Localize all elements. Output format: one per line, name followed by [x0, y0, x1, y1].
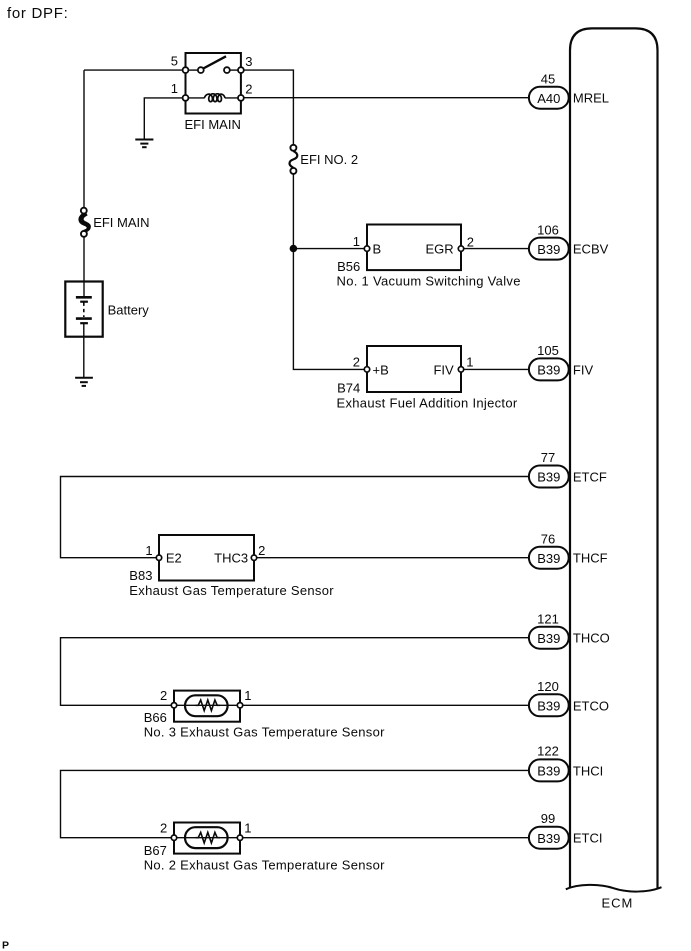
svg-text:No. 1 Vacuum Switching Valve: No. 1 Vacuum Switching Valve: [337, 273, 521, 288]
svg-text:B39: B39: [537, 631, 560, 646]
B66 sensor stadium: [185, 695, 228, 716]
B67 resistor zigzag: [196, 832, 220, 843]
wire: B83 pin2 to THCF oval: [254, 557, 529, 559]
svg-text:B39: B39: [537, 242, 560, 257]
svg-text:2: 2: [258, 543, 265, 558]
B56 pin 1: [364, 246, 369, 251]
battery plate long top: [76, 296, 92, 299]
svg-text:ETCF: ETCF: [573, 470, 607, 485]
B67 sensor stadium: [185, 827, 228, 848]
B67 pin 2: [171, 835, 176, 840]
fuse bottom terminal: [290, 168, 296, 174]
svg-text:1: 1: [244, 821, 251, 836]
ground below relay pin1: [135, 140, 153, 148]
svg-text:B66: B66: [144, 710, 167, 725]
svg-text:THCF: THCF: [573, 551, 608, 566]
fuse top terminal: [290, 145, 296, 151]
svg-text:for DPF:: for DPF:: [7, 5, 68, 22]
terminal oval A40 MREL: [529, 87, 569, 109]
B74 injector box: [367, 346, 461, 392]
relay coil wire pin1 to coil: [186, 97, 205, 99]
battery box: [65, 282, 102, 337]
wire: relay pin1 to ground stem: [144, 98, 185, 139]
svg-text:FIV: FIV: [573, 362, 594, 377]
B66 sensor outer box: [174, 691, 240, 722]
svg-text:B39: B39: [537, 699, 560, 714]
svg-text:76: 76: [541, 531, 555, 546]
terminal oval B39 THCI: [529, 759, 569, 781]
wire: fusible link to battery: [83, 237, 85, 297]
svg-text:3: 3: [245, 54, 252, 69]
wire: ETCF row, riser, to B83 pin1: [61, 477, 529, 558]
svg-text:THCO: THCO: [573, 631, 610, 646]
wire: THCO row, riser, to B66: [61, 638, 529, 706]
svg-text:Battery: Battery: [108, 302, 150, 317]
terminal oval B39 FIV: [529, 358, 569, 380]
relay switch contact A: [198, 67, 204, 73]
fuse EFI NO. 2: [289, 151, 297, 168]
svg-text:THCI: THCI: [573, 763, 603, 778]
fusible link EFI MAIN: [80, 213, 90, 232]
svg-text:B39: B39: [537, 551, 560, 566]
wire: junction to B56 pin1: [293, 248, 367, 250]
junction node: [290, 245, 298, 253]
svg-text:ETCO: ETCO: [573, 698, 609, 713]
svg-text:B83: B83: [129, 568, 152, 583]
terminal oval B39 ETCF: [529, 466, 569, 488]
svg-text:B39: B39: [537, 764, 560, 779]
svg-text:P: P: [2, 940, 9, 951]
wire: left column down to EFI MAIN fusible link: [83, 70, 85, 208]
svg-text:A40: A40: [537, 91, 560, 106]
svg-text:105: 105: [537, 343, 559, 358]
svg-text:1: 1: [353, 234, 360, 249]
svg-text:B39: B39: [537, 363, 560, 378]
svg-text:120: 120: [537, 679, 559, 694]
terminal oval B39 THCO: [529, 627, 569, 649]
wire: EFI NO.2 fuse down through junction to B74 row: [293, 174, 367, 370]
B74 pin 2: [364, 367, 369, 372]
B66 pin 1: [237, 703, 242, 708]
svg-text:ETCI: ETCI: [573, 831, 603, 846]
B56 vacuum switching valve box: [367, 225, 461, 271]
B66 pin 2: [171, 703, 176, 708]
ECM torn wavy bottom edge: [566, 885, 662, 892]
svg-text:No. 2 Exhaust Gas Temperature: No. 2 Exhaust Gas Temperature Sensor: [144, 858, 385, 873]
fusible link bottom terminal: [81, 231, 87, 237]
svg-text:ECM: ECM: [602, 896, 634, 911]
svg-text:E2: E2: [166, 551, 182, 566]
wire: relay pin2 to A40 MREL: [241, 97, 529, 99]
wire: THCI row, riser, to B67: [61, 770, 529, 837]
wire: pin5 row to left column: [84, 69, 186, 71]
relay pin 2: [238, 95, 244, 101]
svg-text:B39: B39: [537, 831, 560, 846]
svg-text:99: 99: [541, 811, 555, 826]
svg-text:2: 2: [245, 82, 252, 97]
B67 pin 1: [237, 835, 242, 840]
svg-text:2: 2: [467, 235, 474, 250]
wire: B74 pin1 to FIV oval: [461, 368, 529, 370]
B83 pin 2: [251, 555, 256, 560]
B83 pin 1: [156, 555, 161, 560]
svg-text:EFI NO. 2: EFI NO. 2: [300, 152, 358, 167]
ground below battery: [75, 378, 93, 386]
relay switch contact B: [224, 67, 230, 73]
svg-text:+B: +B: [373, 363, 389, 378]
ECM connector shell: [570, 28, 658, 888]
B66 resistor zigzag: [196, 700, 220, 711]
terminal oval B39 ETCO: [529, 694, 569, 716]
relay EFI MAIN box: [186, 53, 241, 114]
relay pin 3: [238, 67, 244, 73]
svg-text:121: 121: [537, 611, 559, 626]
svg-text:5: 5: [171, 53, 178, 68]
wire: relay pin3 right then down: [241, 70, 294, 145]
svg-text:2: 2: [160, 688, 167, 703]
svg-text:B: B: [373, 241, 382, 256]
relay pin 5: [183, 67, 189, 73]
battery plate long bottom: [76, 317, 92, 320]
svg-text:77: 77: [541, 450, 555, 465]
svg-text:THC3: THC3: [214, 551, 248, 566]
battery dashed middle link: [83, 303, 85, 318]
B83 temperature sensor box: [159, 535, 254, 581]
relay coil wire to pin2: [225, 97, 241, 99]
svg-text:1: 1: [145, 543, 152, 558]
svg-text:Exhaust Fuel Addition Injector: Exhaust Fuel Addition Injector: [337, 395, 518, 410]
svg-text:1: 1: [466, 354, 473, 369]
svg-text:B39: B39: [537, 470, 560, 485]
battery plate short top: [80, 301, 88, 303]
svg-text:2: 2: [160, 821, 167, 836]
svg-text:EGR: EGR: [426, 241, 454, 256]
relay coil loops: [204, 94, 225, 102]
svg-text:106: 106: [537, 222, 559, 237]
B56 pin 2: [458, 246, 463, 251]
battery plate short bottom: [80, 322, 88, 324]
relay pin 1: [183, 95, 189, 101]
svg-text:122: 122: [537, 744, 559, 759]
svg-text:Exhaust Gas Temperature Sensor: Exhaust Gas Temperature Sensor: [129, 583, 334, 598]
B74 pin 1: [458, 367, 463, 372]
wire: battery to ground: [83, 323, 85, 377]
fusible link top terminal: [81, 208, 87, 214]
B67 sensor outer box: [174, 823, 240, 854]
relay switch wire contact B to pin3: [227, 69, 241, 71]
svg-text:EFI MAIN: EFI MAIN: [93, 215, 149, 230]
svg-text:2: 2: [353, 354, 360, 369]
wire: through B66 to ETCO oval: [174, 704, 529, 706]
svg-text:1: 1: [244, 688, 251, 703]
svg-text:FIV: FIV: [433, 363, 454, 378]
svg-text:45: 45: [541, 71, 555, 86]
terminal oval B39 ETCI: [529, 827, 569, 849]
wire: B56 pin2 to ECBV oval: [461, 248, 529, 250]
wire: through B67 to ETCI oval: [174, 837, 529, 839]
svg-text:B67: B67: [144, 843, 167, 858]
svg-text:EFI MAIN: EFI MAIN: [185, 117, 241, 132]
relay switch blade: [202, 56, 226, 69]
svg-text:No. 3 Exhaust Gas Temperature: No. 3 Exhaust Gas Temperature Sensor: [144, 725, 385, 740]
svg-text:1: 1: [171, 81, 178, 96]
terminal oval B39 ECBV: [529, 238, 569, 260]
svg-text:B74: B74: [337, 380, 360, 395]
relay switch wire pin5 to contact: [186, 69, 201, 71]
svg-text:MREL: MREL: [573, 91, 609, 106]
terminal oval B39 THCF: [529, 547, 569, 569]
svg-text:B56: B56: [337, 259, 360, 274]
svg-text:ECBV: ECBV: [573, 242, 609, 257]
